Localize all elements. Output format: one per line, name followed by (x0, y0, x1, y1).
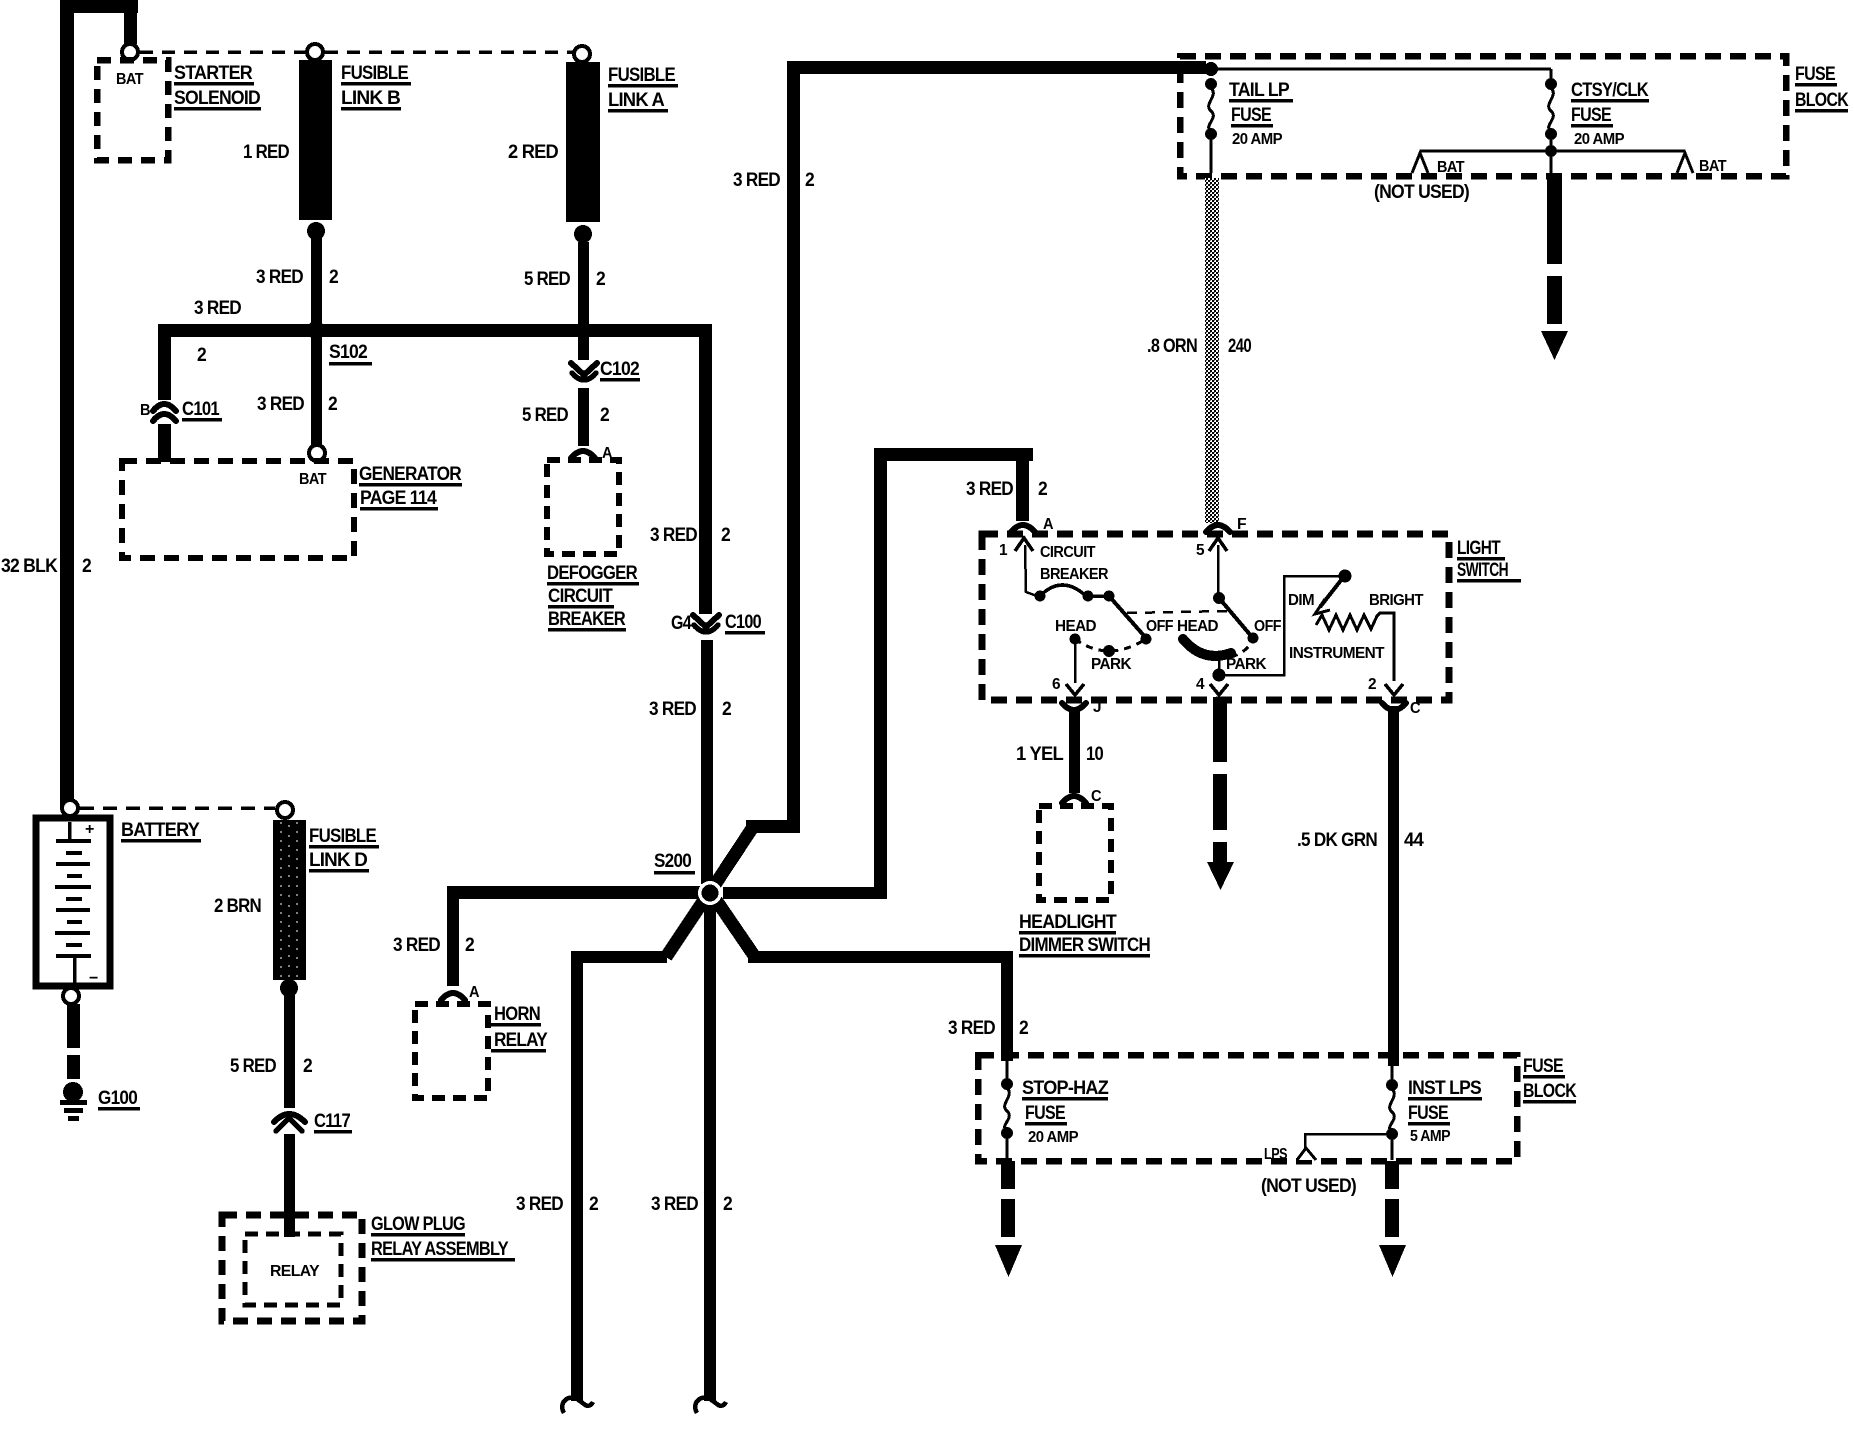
svg-text:5 RED: 5 RED (522, 405, 568, 426)
label: .5 DK GRN 44 (1297, 830, 1424, 851)
svg-text:FUSE: FUSE (1523, 1056, 1563, 1077)
node: fusible link B top circle (307, 44, 323, 60)
svg-text:20 AMP: 20 AMP (1232, 131, 1283, 148)
switch blade F section (1213, 545, 1259, 644)
svg-text:3 RED: 3 RED (948, 1018, 995, 1039)
wire: dashed bus from starter solenoid to fusible link B (140, 50, 305, 54)
svg-text:C101: C101 (182, 399, 220, 420)
pin 5 arrow (1196, 538, 1227, 559)
battery (36, 818, 110, 987)
label: STARTER SOLENOID (174, 63, 261, 111)
label: 3 RED 2 (649, 699, 731, 720)
svg-text:2 RED: 2 RED (508, 142, 558, 163)
svg-text:2: 2 (596, 269, 605, 290)
wire: BAT bus thin line in fuse block (1420, 150, 1685, 153)
svg-text:RELAY: RELAY (270, 1263, 320, 1280)
svg-text:HEADLIGHT: HEADLIGHT (1019, 912, 1117, 933)
starter solenoid box (97, 60, 168, 160)
wire: instrument branch L to rheostat (1219, 576, 1340, 675)
svg-text:2: 2 (722, 699, 731, 720)
svg-text:FUSE: FUSE (1795, 64, 1835, 85)
svg-text:FUSIBLE: FUSIBLE (608, 65, 675, 86)
pin 2 arrow (1368, 676, 1403, 695)
pin C light switch connector (bottom) (1382, 700, 1421, 717)
wire: 3 RED 2 from S102 down to generator BAT (311, 337, 322, 447)
fusible link B (299, 60, 332, 220)
svg-text:FUSE: FUSE (1231, 105, 1271, 126)
wire: 5 RED 2 from link A to C102 (578, 242, 589, 360)
svg-text:BAT: BAT (299, 471, 327, 488)
wire: feed stub into fuse block (1182, 61, 1206, 74)
svg-text:20 AMP: 20 AMP (1028, 1129, 1079, 1146)
pin F light switch connector (1206, 516, 1247, 533)
label: GLOW PLUG RELAY ASSEMBLY (371, 1214, 515, 1262)
svg-text:2: 2 (1038, 479, 1047, 500)
svg-text:CIRCUIT: CIRCUIT (1040, 544, 1096, 561)
svg-text:3 RED: 3 RED (516, 1194, 563, 1215)
svg-text:OFF: OFF (1146, 618, 1174, 635)
label: 5 RED 2 (230, 1056, 312, 1077)
label: HEADLIGHT DIMMER SWITCH (1019, 912, 1150, 958)
horn relay box (415, 1004, 488, 1098)
connector C102 (571, 359, 640, 382)
svg-text:PAGE 114: PAGE 114 (360, 488, 437, 509)
svg-text:RELAY ASSEMBLY: RELAY ASSEMBLY (371, 1239, 509, 1260)
node: generator BAT terminal circle (309, 445, 325, 461)
label: 3 RED 2 (733, 170, 814, 191)
svg-text:GENERATOR: GENERATOR (359, 464, 462, 485)
svg-text:BAT: BAT (1437, 159, 1465, 176)
connector C101 (140, 399, 222, 422)
svg-text:3 RED: 3 RED (966, 479, 1013, 500)
svg-text:3 RED: 3 RED (651, 1194, 698, 1215)
svg-text:FUSE: FUSE (1571, 105, 1611, 126)
svg-text:5 RED: 5 RED (230, 1056, 276, 1077)
label: 1 YEL 10 (1016, 744, 1103, 765)
wire: 3 RED 2 from fusible link B to S102 (311, 238, 322, 330)
label: HORN RELAY (491, 1004, 548, 1053)
svg-text:FUSIBLE: FUSIBLE (341, 63, 408, 84)
node: fusible link D top circle (277, 802, 293, 818)
label: 5 RED 2 (524, 269, 605, 290)
svg-text:4: 4 (1196, 676, 1205, 693)
switch dashed arc HEAD-PARK-OFF left (1070, 634, 1147, 658)
svg-text:3 RED: 3 RED (194, 298, 241, 319)
svg-text:LINK B: LINK B (341, 88, 400, 109)
wire: 1 YEL 10 to dimmer switch (1069, 708, 1080, 793)
pin A light switch connector (1011, 516, 1054, 533)
node: dot below fusible link D (280, 979, 298, 997)
wire: INST LPS output dashed arrow down (1379, 1161, 1406, 1277)
node: dot below fusible link A (574, 225, 592, 243)
wire: S200 bottom vertical to hook (695, 899, 726, 1413)
svg-text:FUSE: FUSE (1408, 1103, 1448, 1124)
svg-text:CTSY/CLK: CTSY/CLK (1571, 80, 1649, 101)
connector C117 (274, 1111, 352, 1134)
wire: STOP-HAZ output dashed arrow down (995, 1161, 1022, 1277)
svg-text:(NOT USED): (NOT USED) (1261, 1176, 1356, 1197)
svg-text:BAT: BAT (116, 71, 144, 88)
rheostat wiper arm with arrowhead (1315, 579, 1342, 614)
fuse STOP-HAZ 20 AMP (1001, 1058, 1109, 1160)
svg-text:5 RED: 5 RED (524, 269, 570, 290)
node: dot below fusible link B (307, 222, 325, 240)
pin C dimmer switch connector (1062, 788, 1102, 805)
svg-text:3 RED: 3 RED (256, 267, 303, 288)
svg-text:STARTER: STARTER (174, 63, 253, 84)
svg-text:20 AMP: 20 AMP (1574, 131, 1625, 148)
node: starter solenoid BAT terminal circle (122, 44, 138, 60)
label: FUSIBLE LINK B (341, 63, 411, 111)
wire: C100 down to S200 (701, 640, 713, 884)
svg-text:TAIL LP: TAIL LP (1229, 80, 1290, 101)
svg-text:SWITCH: SWITCH (1457, 560, 1508, 581)
wire: battery negative to ground (67, 1004, 80, 1079)
svg-text:INSTRUMENT: INSTRUMENT (1289, 645, 1385, 662)
svg-text:BATTERY: BATTERY (121, 820, 200, 841)
svg-text:LINK A: LINK A (608, 90, 665, 111)
label: 3 RED 2 (257, 394, 337, 415)
node: pin 4 junction dot (1213, 669, 1226, 682)
label: 5 RED 2 (522, 405, 609, 426)
wire: C101 to generator (158, 424, 171, 462)
wire: main battery positive feed, left vertical 32 BLK (60, 0, 138, 808)
svg-text:BREAKER: BREAKER (548, 609, 626, 630)
wire: 3 RED 2 from S102 corner down to C100 (699, 324, 712, 614)
svg-text:5 AMP: 5 AMP (1410, 1128, 1451, 1145)
pin A horn relay connector (441, 984, 480, 1001)
svg-text:HORN: HORN (494, 1004, 540, 1025)
label: GENERATOR PAGE 114 (359, 464, 462, 511)
svg-text:A: A (1043, 516, 1054, 533)
svg-text:2: 2 (805, 170, 814, 191)
switch wiper crescent (1183, 639, 1231, 656)
wire: CTSY/CLK output dashed arrow down (1541, 179, 1568, 360)
svg-text:2: 2 (82, 556, 91, 577)
svg-text:+: + (85, 821, 94, 838)
svg-text:C100: C100 (725, 612, 761, 633)
svg-text:.5 DK GRN: .5 DK GRN (1297, 830, 1377, 851)
wire: thin bus to ctsy fuse (1211, 69, 1551, 80)
fuse TAIL LP 20 AMP (1205, 78, 1293, 173)
svg-text:G4: G4 (671, 613, 692, 634)
svg-text:PARK: PARK (1091, 656, 1132, 673)
svg-text:(NOT USED): (NOT USED) (1374, 182, 1469, 203)
junction S102 (158, 321, 711, 366)
svg-text:2: 2 (600, 405, 609, 426)
wire: crescent to pin 4 junction (1218, 655, 1221, 676)
svg-text:1 RED: 1 RED (243, 142, 289, 163)
svg-text:3 RED: 3 RED (649, 699, 696, 720)
terminal BAT (not used) left (1412, 153, 1465, 176)
label: 3 RED 2 (650, 525, 730, 546)
pin 6 arrow (1052, 676, 1084, 695)
terminal BAT right (1677, 153, 1727, 175)
svg-text:DIM: DIM (1288, 592, 1314, 609)
wire: S200 SE diagonal branch to bottom-right fuse block (714, 897, 1013, 1061)
svg-text:BREAKER: BREAKER (1040, 566, 1109, 583)
light switch box (982, 534, 1449, 700)
svg-text:2: 2 (303, 1056, 312, 1077)
svg-text:C117: C117 (314, 1111, 350, 1132)
label: 3 RED 2 (948, 1018, 1028, 1039)
label: FUSE BLOCK (1523, 1056, 1577, 1104)
label: DEFOGGER CIRCUIT BREAKER (547, 563, 639, 632)
wire: pin 4 output dashed arrow down (1207, 697, 1234, 890)
svg-text:BAT: BAT (1699, 158, 1727, 175)
svg-text:2: 2 (328, 394, 337, 415)
svg-text:2: 2 (329, 267, 338, 288)
pin 1 arrow (999, 538, 1033, 559)
svg-text:3 RED: 3 RED (733, 170, 780, 191)
svg-text:C: C (1410, 700, 1421, 717)
battery bottom circle (63, 988, 79, 1004)
wire: C102 to defogger circuit breaker (578, 388, 589, 446)
wire: feed to top-right fuse block (corner at 795,67) (746, 61, 1205, 833)
svg-text:BLOCK: BLOCK (1523, 1081, 1577, 1102)
fusible link D (273, 820, 306, 980)
node: junction dot at tail lp fuse (1204, 62, 1218, 76)
label: BATTERY (121, 820, 201, 843)
svg-text:3 RED: 3 RED (257, 394, 304, 415)
connector G4 C100 (671, 612, 765, 635)
svg-text:LPS: LPS (1264, 1146, 1288, 1163)
wire: LPS branch (not used) (1305, 1134, 1392, 1152)
wire: S200 right horizontal up to light switch A feed (723, 448, 1033, 899)
svg-text:F: F (1237, 516, 1247, 533)
circuit breaker element (1025, 545, 1152, 645)
fuse block top-right box (1180, 56, 1786, 176)
label: FUSIBLE LINK D (309, 826, 379, 873)
wire: 5 RED 2 from link D to C117 (284, 995, 295, 1108)
svg-text:HEAD: HEAD (1055, 618, 1096, 635)
svg-text:1 YEL: 1 YEL (1016, 744, 1064, 765)
svg-text:−: − (89, 970, 98, 987)
splice S200 (654, 851, 722, 905)
ground G100 (60, 1082, 140, 1121)
svg-text:32 BLK: 32 BLK (1, 556, 58, 577)
svg-text:LINK D: LINK D (309, 850, 367, 871)
internal dashed divider (1127, 611, 1227, 613)
svg-text:G100: G100 (98, 1088, 137, 1109)
svg-text:SOLENOID: SOLENOID (174, 88, 260, 109)
wire: S200 SW diagonal branch to bottom hook (562, 897, 706, 1413)
fuse block bottom box (978, 1055, 1517, 1161)
svg-text:CIRCUIT: CIRCUIT (548, 586, 613, 607)
label: CIRCUIT BREAKER (1040, 544, 1109, 583)
svg-text:C102: C102 (600, 359, 639, 380)
pin 4 arrow (1196, 676, 1228, 695)
wire: S200 left horizontal to horn relay corner (447, 886, 701, 986)
wire: head dot to pin 6 (1074, 639, 1077, 683)
pin A defogger connector (571, 445, 613, 462)
dashed arc right section (1231, 642, 1252, 657)
svg-text:FUSIBLE: FUSIBLE (309, 826, 376, 847)
headlight dimmer switch box (1039, 806, 1111, 900)
wire: C117 to glow plug relay (284, 1134, 295, 1237)
label: 3 RED 2 light switch feed (966, 479, 1047, 500)
svg-text:FUSE: FUSE (1025, 1103, 1065, 1124)
terminal LPS (1264, 1146, 1316, 1163)
wire: .5 DK GRN 44 from pin C to fuse block (1388, 706, 1399, 1066)
svg-text:DIMMER SWITCH: DIMMER SWITCH (1019, 935, 1150, 956)
svg-text:B: B (140, 402, 150, 419)
svg-text:2: 2 (1019, 1018, 1028, 1039)
svg-text:PARK: PARK (1226, 656, 1267, 673)
fusible link A (566, 62, 600, 222)
node: fusible link A top circle (574, 46, 590, 62)
svg-text:10: 10 (1086, 744, 1103, 765)
label: FUSE BLOCK (1795, 64, 1849, 113)
svg-text:A: A (469, 984, 480, 1001)
svg-text:BLOCK: BLOCK (1795, 90, 1849, 111)
svg-text:3 RED: 3 RED (650, 525, 697, 546)
svg-text:RELAY: RELAY (494, 1030, 548, 1051)
node: rheostat wiper pivot dot (1339, 570, 1352, 583)
label: 3 RED 2 horn relay feed (393, 935, 474, 956)
rheostat resistor element (1316, 613, 1394, 681)
svg-text:2: 2 (197, 345, 206, 366)
label: LIGHT SWITCH (1457, 538, 1521, 583)
svg-text:HEAD: HEAD (1177, 618, 1218, 635)
pin J light switch connector (bottom) (1062, 699, 1101, 716)
svg-text:2: 2 (721, 525, 730, 546)
svg-text:2: 2 (589, 1194, 598, 1215)
svg-text:OFF: OFF (1254, 618, 1282, 635)
svg-text:GLOW PLUG: GLOW PLUG (371, 1214, 465, 1235)
svg-text:2 BRN: 2 BRN (214, 896, 261, 917)
glow plug relay assembly box (222, 1215, 362, 1321)
label: 3 RED 2 (516, 1194, 598, 1215)
svg-text:.8 ORN: .8 ORN (1147, 336, 1197, 357)
svg-text:240: 240 (1228, 336, 1251, 357)
generator box (122, 461, 354, 558)
wire: dashed bus battery to fusible link D (80, 806, 275, 810)
svg-text:2: 2 (1368, 676, 1377, 693)
svg-text:J: J (1093, 699, 1101, 716)
svg-text:2: 2 (723, 1194, 732, 1215)
svg-text:2: 2 (465, 935, 474, 956)
svg-text:5: 5 (1196, 542, 1205, 559)
defogger circuit breaker box (547, 460, 619, 554)
svg-text:DEFOGGER: DEFOGGER (547, 563, 638, 584)
svg-text:S200: S200 (654, 851, 691, 872)
svg-text:3 RED: 3 RED (393, 935, 440, 956)
svg-text:1: 1 (999, 542, 1008, 559)
label: FUSIBLE LINK A (608, 65, 678, 113)
fuse CTSY/CLK 20 AMP (1545, 78, 1649, 176)
wire: S102 left branch down to C101 (158, 324, 171, 400)
wire: .8 ORN 240 halftone to light switch F (1205, 178, 1219, 523)
svg-text:44: 44 (1404, 830, 1424, 851)
svg-text:INST LPS: INST LPS (1408, 1078, 1481, 1099)
svg-text:S102: S102 (329, 342, 367, 363)
wire: dashed bus from fusible link B to fusible link A (325, 50, 573, 54)
svg-text:STOP-HAZ: STOP-HAZ (1022, 1078, 1109, 1099)
svg-text:6: 6 (1052, 676, 1061, 693)
svg-text:C: C (1091, 788, 1102, 805)
label: 3 RED 2 (651, 1194, 732, 1215)
svg-text:LIGHT: LIGHT (1457, 538, 1501, 559)
label: 32 BLK 2 (1, 556, 91, 577)
label: .8 ORN 240 (1147, 336, 1251, 357)
wire: S200 NE diagonal (714, 827, 753, 886)
battery top circle (62, 800, 78, 816)
svg-text:BRIGHT: BRIGHT (1369, 592, 1424, 609)
label: 3 RED 2 (256, 267, 338, 288)
fuse INST LPS 5 AMP (1386, 1066, 1482, 1160)
